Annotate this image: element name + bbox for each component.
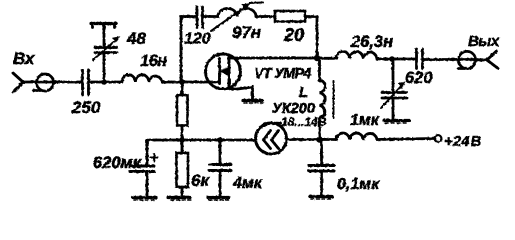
svg-text:250: 250 [71, 98, 101, 117]
svg-text:VT УМР4: VT УМР4 [254, 66, 311, 82]
svg-text:1мк: 1мк [350, 112, 380, 129]
svg-text:L: L [299, 84, 308, 101]
svg-text:Вх: Вх [13, 49, 36, 68]
svg-text:48: 48 [126, 29, 146, 48]
svg-text:26,3н: 26,3н [350, 33, 393, 51]
svg-text:97н: 97н [232, 23, 261, 42]
svg-text:4мк: 4мк [232, 175, 263, 192]
svg-text:16н: 16н [140, 52, 167, 70]
svg-text:20: 20 [283, 25, 304, 45]
svg-text:0,1мк: 0,1мк [337, 176, 380, 193]
svg-text:6к: 6к [191, 171, 210, 190]
svg-text:620мк: 620мк [93, 154, 143, 172]
svg-text:620: 620 [405, 69, 433, 87]
svg-text:+24: +24 [444, 133, 470, 150]
svg-text:Вых: Вых [468, 33, 500, 50]
svg-text:120: 120 [184, 31, 211, 48]
svg-text:18...14В: 18...14В [281, 115, 327, 129]
svg-text:В: В [471, 133, 482, 150]
